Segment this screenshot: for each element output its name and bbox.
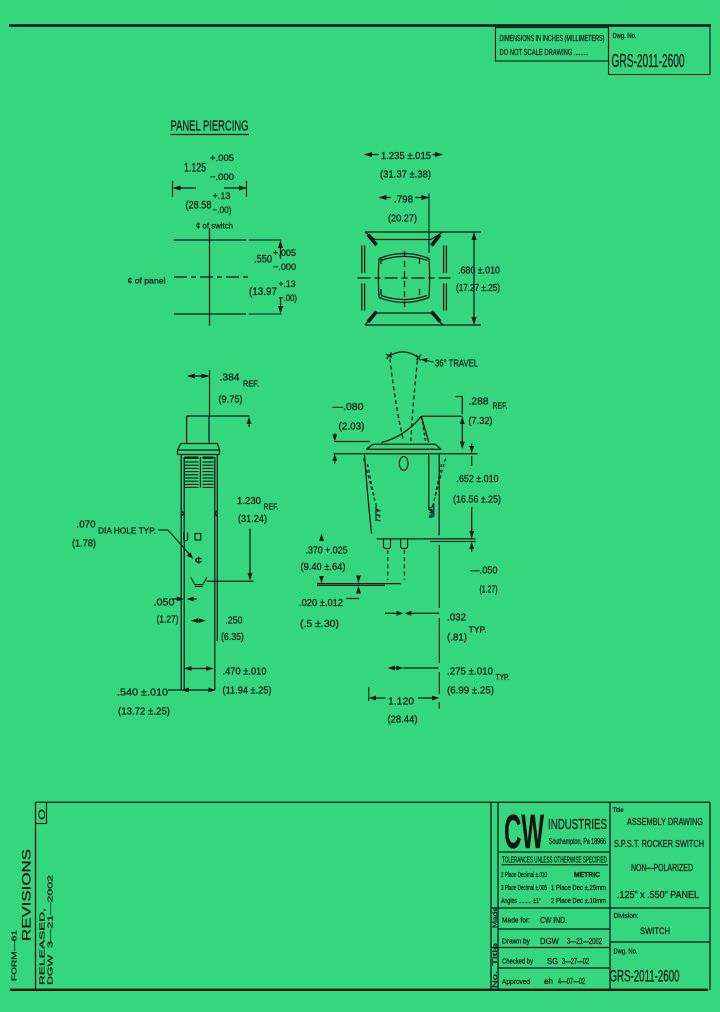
terminals (front view) [384,539,408,549]
body left edge [365,455,372,534]
svg-text:CW IND.: CW IND. [540,915,567,925]
dim .370 arrows [319,534,324,583]
left wing serrations [376,506,381,521]
svg-text:4—07—02: 4—07—02 [558,976,585,986]
dim .540 [117,687,216,718]
peak reference line [421,415,462,417]
svg-text:FORM—61: FORM—61 [10,930,19,981]
svg-text:.550: .550 [254,254,272,266]
tolerances header [502,856,609,865]
36 deg travel label [421,358,479,370]
svg-text:1.230: 1.230 [237,495,261,507]
right snap wing (hidden) [430,459,446,518]
svg-text:Title: Title [613,807,624,814]
svg-text:(7.32): (7.32) [469,415,493,427]
dim -.050 [469,542,497,596]
svg-text:Southampton, Pa 18966: Southampton, Pa 18966 [549,837,606,846]
dim .020 arrows [356,576,361,594]
svg-text:Angles ......... ±1°: Angles ......... ±1° [501,896,541,905]
svg-text:¢ of switch: ¢ of switch [196,221,233,231]
body outer walls [181,455,217,690]
svg-text:.384: .384 [220,372,240,384]
svg-text:(16.56 ±.25): (16.56 ±.25) [453,494,501,506]
rocker hidden edge dashes [381,258,420,295]
svg-text:(31.24): (31.24) [238,513,267,525]
title area [613,807,705,901]
dim .652 [453,444,501,539]
division box [614,911,671,937]
approved row [502,976,585,986]
svg-text:Checked by: Checked by [502,957,533,966]
svg-text:2 Place Decimal ±.010: 2 Place Decimal ±.010 [501,870,547,879]
dim .550 text [249,248,297,304]
dim .798 [379,194,430,254]
terminal tip line pair [317,584,401,586]
spring finger ribs right stack [203,458,214,488]
svg-text:GRS-2011-2600: GRS-2011-2600 [610,968,680,986]
svg-text:Made: Made [492,907,499,928]
vertical centerline [209,228,211,326]
svg-text:DIMENSIONS IN INCHES (MILLIMET: DIMENSIONS IN INCHES (MILLIMETERS) [500,33,605,43]
svg-text:(28.58: (28.58 [186,200,212,212]
svg-text:.032: .032 [447,612,466,624]
svg-text:−.000: −.000 [273,262,296,273]
svg-text:−.00): −.00) [279,293,297,304]
svg-text:1.120: 1.120 [388,696,414,708]
svg-text:eh: eh [544,976,553,986]
wall break nicks [181,511,217,517]
rib center divider [199,457,201,488]
svg-text:(6.35): (6.35) [221,631,244,643]
svg-text:3—27—02: 3—27—02 [562,956,589,966]
svg-text:REF.: REF. [493,401,508,411]
svg-text:(31.37 ±.38): (31.37 ±.38) [380,169,431,181]
svg-text:Dwg. No.: Dwg. No. [614,947,638,956]
svg-text:1.235 ±.015: 1.235 ±.015 [381,150,431,162]
svg-text:.050: .050 [154,597,175,609]
dim .550 extension lines [249,240,284,314]
body right edge [438,455,440,536]
title block outer verticals [491,802,710,990]
svg-text:CW: CW [504,806,544,859]
svg-text:.250: .250 [226,615,243,627]
svg-text:PANEL PIERCING: PANEL PIERCING [171,119,249,135]
svg-text:Title: Title [492,942,499,966]
svg-text:(2.03): (2.03) [339,421,365,433]
svg-text:(13.97: (13.97 [249,286,277,298]
svg-text:Dwg. No.: Dwg. No. [613,31,637,40]
svg-text:.470 ±.010: .470 ±.010 [223,666,267,678]
right wing serrations [430,503,434,517]
made for row [502,915,567,925]
dim 1.230 REF text and lower line [237,495,279,581]
dia hole leader and label [72,519,203,566]
dim .275 [388,666,510,697]
svg-text:.652 ±.010: .652 ±.010 [457,473,499,485]
svg-text:DGW: DGW [540,936,559,946]
dim 1.125 +.005 -.000 (28.58 +.13 -.00) [173,153,248,216]
piercing bottom edge [174,313,246,315]
right extension line (segmented) [438,545,440,709]
svg-text:(.81): (.81) [447,632,467,644]
svg-text:(28.44): (28.44) [388,714,418,726]
svg-text:.540 ±.010: .540 ±.010 [117,687,168,699]
inner vertical and step [429,455,432,517]
svg-text:(11.94 ±.25): (11.94 ±.25) [223,685,272,697]
svg-text:(1.27): (1.27) [157,614,179,626]
svg-text:Division:: Division: [614,911,639,920]
svg-text:(1.27): (1.27) [480,584,498,596]
svg-text:+.005: +.005 [210,153,234,164]
svg-text:.070: .070 [77,519,96,531]
svg-text:36° TRAVEL: 36° TRAVEL [435,359,478,370]
svg-text:¢ of panel: ¢ of panel [128,276,166,286]
left side snap tabs [362,246,365,311]
rocker (side view) [187,416,250,443]
dim -.080 [332,401,370,464]
dashed horizontal centerline [174,276,249,278]
svg-text:(20.27): (20.27) [388,213,417,225]
dim .250 [191,615,244,644]
rocker outline (top view) [378,254,429,303]
dim .470 [184,666,271,697]
dim .680 [456,232,500,325]
dwg number box bottom [610,947,680,986]
svg-text:No.: No. [492,971,499,988]
dim .032 [385,611,487,644]
front oval [399,457,408,471]
notes box [496,28,609,62]
svg-text:GRS-2011-2600: GRS-2011-2600 [612,50,685,71]
svg-text:2 Place Dec ±.10mm: 2 Place Dec ±.10mm [551,896,606,905]
horizontal dashed centerline [358,277,451,279]
checked by row [502,956,589,966]
svg-text:REVISIONS: REVISIONS [22,849,34,941]
svg-text:TOLERANCES UNLESS OTHERWISE SP: TOLERANCES UNLESS OTHERWISE SPECIFIED [502,856,607,865]
svg-text:Drawn by: Drawn by [502,937,530,946]
svg-text:.370 +.025: .370 +.025 [306,545,348,557]
top view outer top edge [365,231,481,233]
svg-text:O: O [37,809,47,820]
svg-text:(17.27 ±.25): (17.27 ±.25) [456,282,500,294]
svg-text:(.5 ±.30): (.5 ±.30) [300,618,339,630]
dim .384 REF [187,370,259,416]
title block horizontal lines left column [491,852,710,968]
row labels vertical strip [492,907,499,988]
svg-text:.680 ±.010: .680 ±.010 [458,265,500,277]
svg-text:—.050: —.050 [471,565,498,577]
svg-text:−.00): −.00) [213,205,232,216]
svg-text:DIA HOLE TYP.: DIA HOLE TYP. [98,526,156,536]
svg-text:+.13: +.13 [213,191,231,202]
svg-text:.275 ±.010: .275 ±.010 [447,666,493,678]
svg-text:REF.: REF. [243,379,259,389]
terminal centerlines dashed [388,550,405,580]
CW logo [504,806,607,859]
svg-text:INDUSTRIES: INDUSTRIES [548,817,607,833]
dim .050 [154,597,197,626]
svg-text:NON—POLARIZED: NON—POLARIZED [631,863,693,874]
spring finger ribs left stack [185,458,199,488]
svg-text:¢: ¢ [195,556,203,566]
svg-text:+.13: +.13 [279,279,296,290]
svg-text:1 Place Dec ±.25mm: 1 Place Dec ±.25mm [551,883,606,892]
dwg number box top right [609,26,711,75]
svg-text:3 Place Decimal ±.005: 3 Place Decimal ±.005 [501,883,547,892]
tolerance rows [501,870,606,905]
svg-text:(9.75): (9.75) [219,394,243,406]
svg-text:METRIC: METRIC [574,870,601,879]
top border line [9,24,711,26]
left snap wing (hidden) [364,459,380,518]
bezel (side view) [178,444,220,455]
drawn by row [502,936,602,946]
svg-text:DO NOT SCALE DRAWING .........: DO NOT SCALE DRAWING ......... [500,47,589,57]
rocker profile (front view) [382,416,429,442]
side hole U slot [184,533,188,541]
svg-text:(6.99 ±.25): (6.99 ±.25) [447,685,494,697]
corner slant lines [365,232,443,325]
dim .288 REF [456,396,508,450]
svg-text:3—21—2002: 3—21—2002 [567,936,602,946]
right side snap tabs [444,246,447,311]
dim .020 text [299,597,359,630]
revision letter box [36,802,48,823]
travel arc [386,352,421,361]
svg-text:TYP.: TYP. [496,673,510,682]
svg-text:TYP.: TYP. [469,626,487,635]
dim .370 text [301,545,348,574]
svg-text:S.P.S.T. ROCKER SWITCH: S.P.S.T. ROCKER SWITCH [614,839,704,850]
svg-text:(9.40 ±.64): (9.40 ±.64) [301,561,346,573]
svg-text:REF.: REF. [264,502,279,512]
terminal cup (side view) [191,578,207,587]
body bottom line [377,538,476,540]
dim 1.235 +-.015 [364,150,443,181]
svg-text:Approved: Approved [502,977,530,986]
square hole [195,534,201,541]
svg-text:DGW 3—21—2002: DGW 3—21—2002 [46,875,55,985]
svg-text:ASSEMBLY DRAWING: ASSEMBLY DRAWING [627,817,703,828]
view title [171,119,250,135]
svg-text:SWITCH: SWITCH [640,926,670,937]
revisions left vertical [35,802,37,990]
strip top line [36,801,711,803]
svg-text:.798: .798 [394,194,413,206]
svg-text:.020 ±.012: .020 ±.012 [299,597,343,609]
top view outer bottom edge [365,324,481,326]
bottom border line [10,989,708,991]
svg-text:Made for:: Made for: [502,916,530,925]
piercing top edge [174,239,246,241]
top view inner bottom edge [375,312,431,314]
svg-text:1.125: 1.125 [184,163,206,175]
panel surface line [334,453,478,455]
svg-text:—.080: —.080 [333,401,364,413]
bezel (front view) [366,444,441,449]
svg-text:SG: SG [547,956,558,966]
svg-text:.125" x .550" PANEL: .125" x .550" PANEL [617,890,699,901]
released note vertical [38,875,55,985]
svg-text:+.005: +.005 [273,248,296,259]
svg-text:(1.78): (1.78) [72,538,96,550]
base rim line [430,541,476,543]
vertical dashed centerline [404,251,406,307]
svg-text:(13.72 ±.25): (13.72 ±.25) [118,706,170,718]
dim 1.120 [369,687,440,726]
top view inner top edge [375,239,431,241]
terminal reference line [207,580,254,582]
corner darts (solid) [368,235,440,323]
dashed travel extents [390,359,418,443]
dim 1.230 REF upper arrow [247,417,252,428]
svg-text:.288: .288 [469,396,489,408]
svg-text:−.000: −.000 [210,172,234,183]
